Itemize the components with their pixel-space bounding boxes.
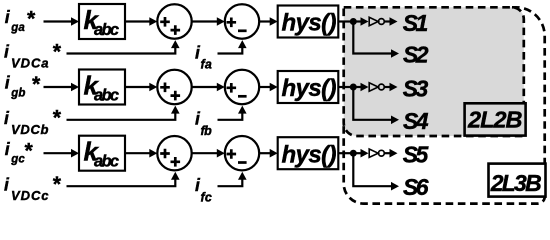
wire: [338, 86, 353, 88]
wire: [353, 149, 368, 158]
label box 2L3B: [489, 164, 546, 197]
svg-text:VDCb: VDCb: [11, 122, 49, 137]
gain block K2 (k_abc): [79, 70, 125, 105]
svg-text:*: *: [52, 40, 61, 63]
svg-text:S5: S5: [403, 142, 430, 168]
wire: [353, 87, 399, 124]
node input label i_VDCb*: [4, 107, 61, 137]
svg-text:VDCa: VDCa: [11, 56, 49, 71]
wire: [192, 17, 225, 26]
wire: [384, 149, 397, 158]
inverter G1 (NOT gate): [369, 17, 384, 25]
svg-text:gb: gb: [10, 88, 25, 100]
svg-text:abc: abc: [94, 87, 119, 105]
wire: [44, 83, 80, 92]
wire: [338, 20, 353, 22]
summer U1a (adder): [157, 4, 191, 38]
wire: [384, 17, 397, 26]
wire: [259, 17, 278, 26]
svg-text:S2: S2: [403, 42, 429, 68]
node output label S5: [403, 142, 430, 168]
wire: [125, 149, 157, 158]
wire: [353, 22, 399, 58]
summer U2a (adder): [157, 70, 191, 104]
wire: [67, 172, 180, 186]
shaded region 2L2B (inner dashed rounded box, gray fill): [344, 7, 524, 136]
svg-text:S4: S4: [403, 108, 429, 134]
node input label i_gc*: [5, 139, 33, 166]
wire: [353, 83, 368, 92]
wire: [259, 83, 278, 92]
wire: [218, 40, 247, 53]
node output label S3: [403, 75, 429, 101]
wire: [353, 17, 368, 26]
wire: [125, 83, 157, 92]
node output label S2: [403, 42, 429, 68]
svg-text:fc: fc: [201, 190, 212, 204]
node output label S1: [403, 10, 429, 36]
wire: [338, 152, 353, 154]
svg-text:fa: fa: [201, 58, 212, 72]
svg-text:*: *: [52, 173, 61, 196]
node output label S4: [403, 108, 429, 134]
svg-text:hys(): hys(): [282, 75, 337, 102]
svg-text:abc: abc: [94, 153, 119, 171]
wire: [218, 172, 247, 186]
gain block K3 (k_abc): [79, 136, 125, 171]
node junction J2: [350, 84, 357, 91]
region 2L3B (outer dashed rounded box): [344, 7, 545, 203]
summer U3a (adder): [157, 136, 191, 170]
summer U2b (subtractor): [225, 70, 259, 104]
node input label i_fb: [195, 109, 212, 138]
wire: [192, 83, 225, 92]
node input label i_ga*: [5, 7, 36, 34]
node input label i_fa: [195, 42, 212, 71]
wire: [67, 40, 180, 53]
hysteresis block H3 hys(): [278, 137, 339, 169]
svg-text:hys(): hys(): [282, 10, 337, 37]
svg-text:S3: S3: [403, 75, 429, 101]
wire: [67, 106, 180, 120]
summer U1b (subtractor): [225, 4, 259, 38]
wire: [44, 149, 80, 158]
svg-text:2L2B: 2L2B: [467, 107, 523, 133]
wire: [44, 17, 80, 26]
hysteresis block H1 hys(): [278, 6, 339, 38]
inverter G2 (NOT gate): [369, 83, 384, 91]
svg-text:S1: S1: [403, 10, 429, 36]
node input label i_fc: [195, 175, 212, 204]
summer U3b (subtractor): [225, 136, 259, 170]
svg-text:2L3B: 2L3B: [490, 170, 542, 196]
svg-text:abc: abc: [94, 21, 119, 39]
node input label i_VDCa*: [4, 40, 61, 70]
node junction J3: [350, 150, 357, 157]
node output label S6: [403, 174, 429, 200]
inverter G3 (NOT gate): [369, 149, 384, 157]
wire: [384, 83, 397, 92]
svg-text:hys(): hys(): [282, 141, 337, 168]
gain block K1 (k_abc): [79, 4, 125, 39]
node input label i_VDCc*: [4, 173, 61, 203]
svg-text:fb: fb: [201, 124, 213, 138]
hysteresis block H2 hys(): [278, 71, 339, 103]
svg-text:S6: S6: [403, 174, 429, 200]
wire: [218, 106, 247, 120]
svg-text:VDCc: VDCc: [11, 188, 49, 203]
svg-text:*: *: [26, 8, 35, 31]
svg-text:ga: ga: [10, 22, 25, 34]
node input label i_gb*: [5, 73, 41, 100]
svg-text:*: *: [31, 73, 40, 96]
node junction J1: [350, 18, 357, 25]
svg-text:*: *: [52, 107, 61, 130]
wire: [125, 17, 157, 26]
wire: [259, 149, 278, 158]
svg-text:*: *: [24, 139, 33, 162]
label box 2L2B: [465, 103, 526, 135]
wire: [192, 149, 225, 158]
wire: [353, 153, 399, 190]
